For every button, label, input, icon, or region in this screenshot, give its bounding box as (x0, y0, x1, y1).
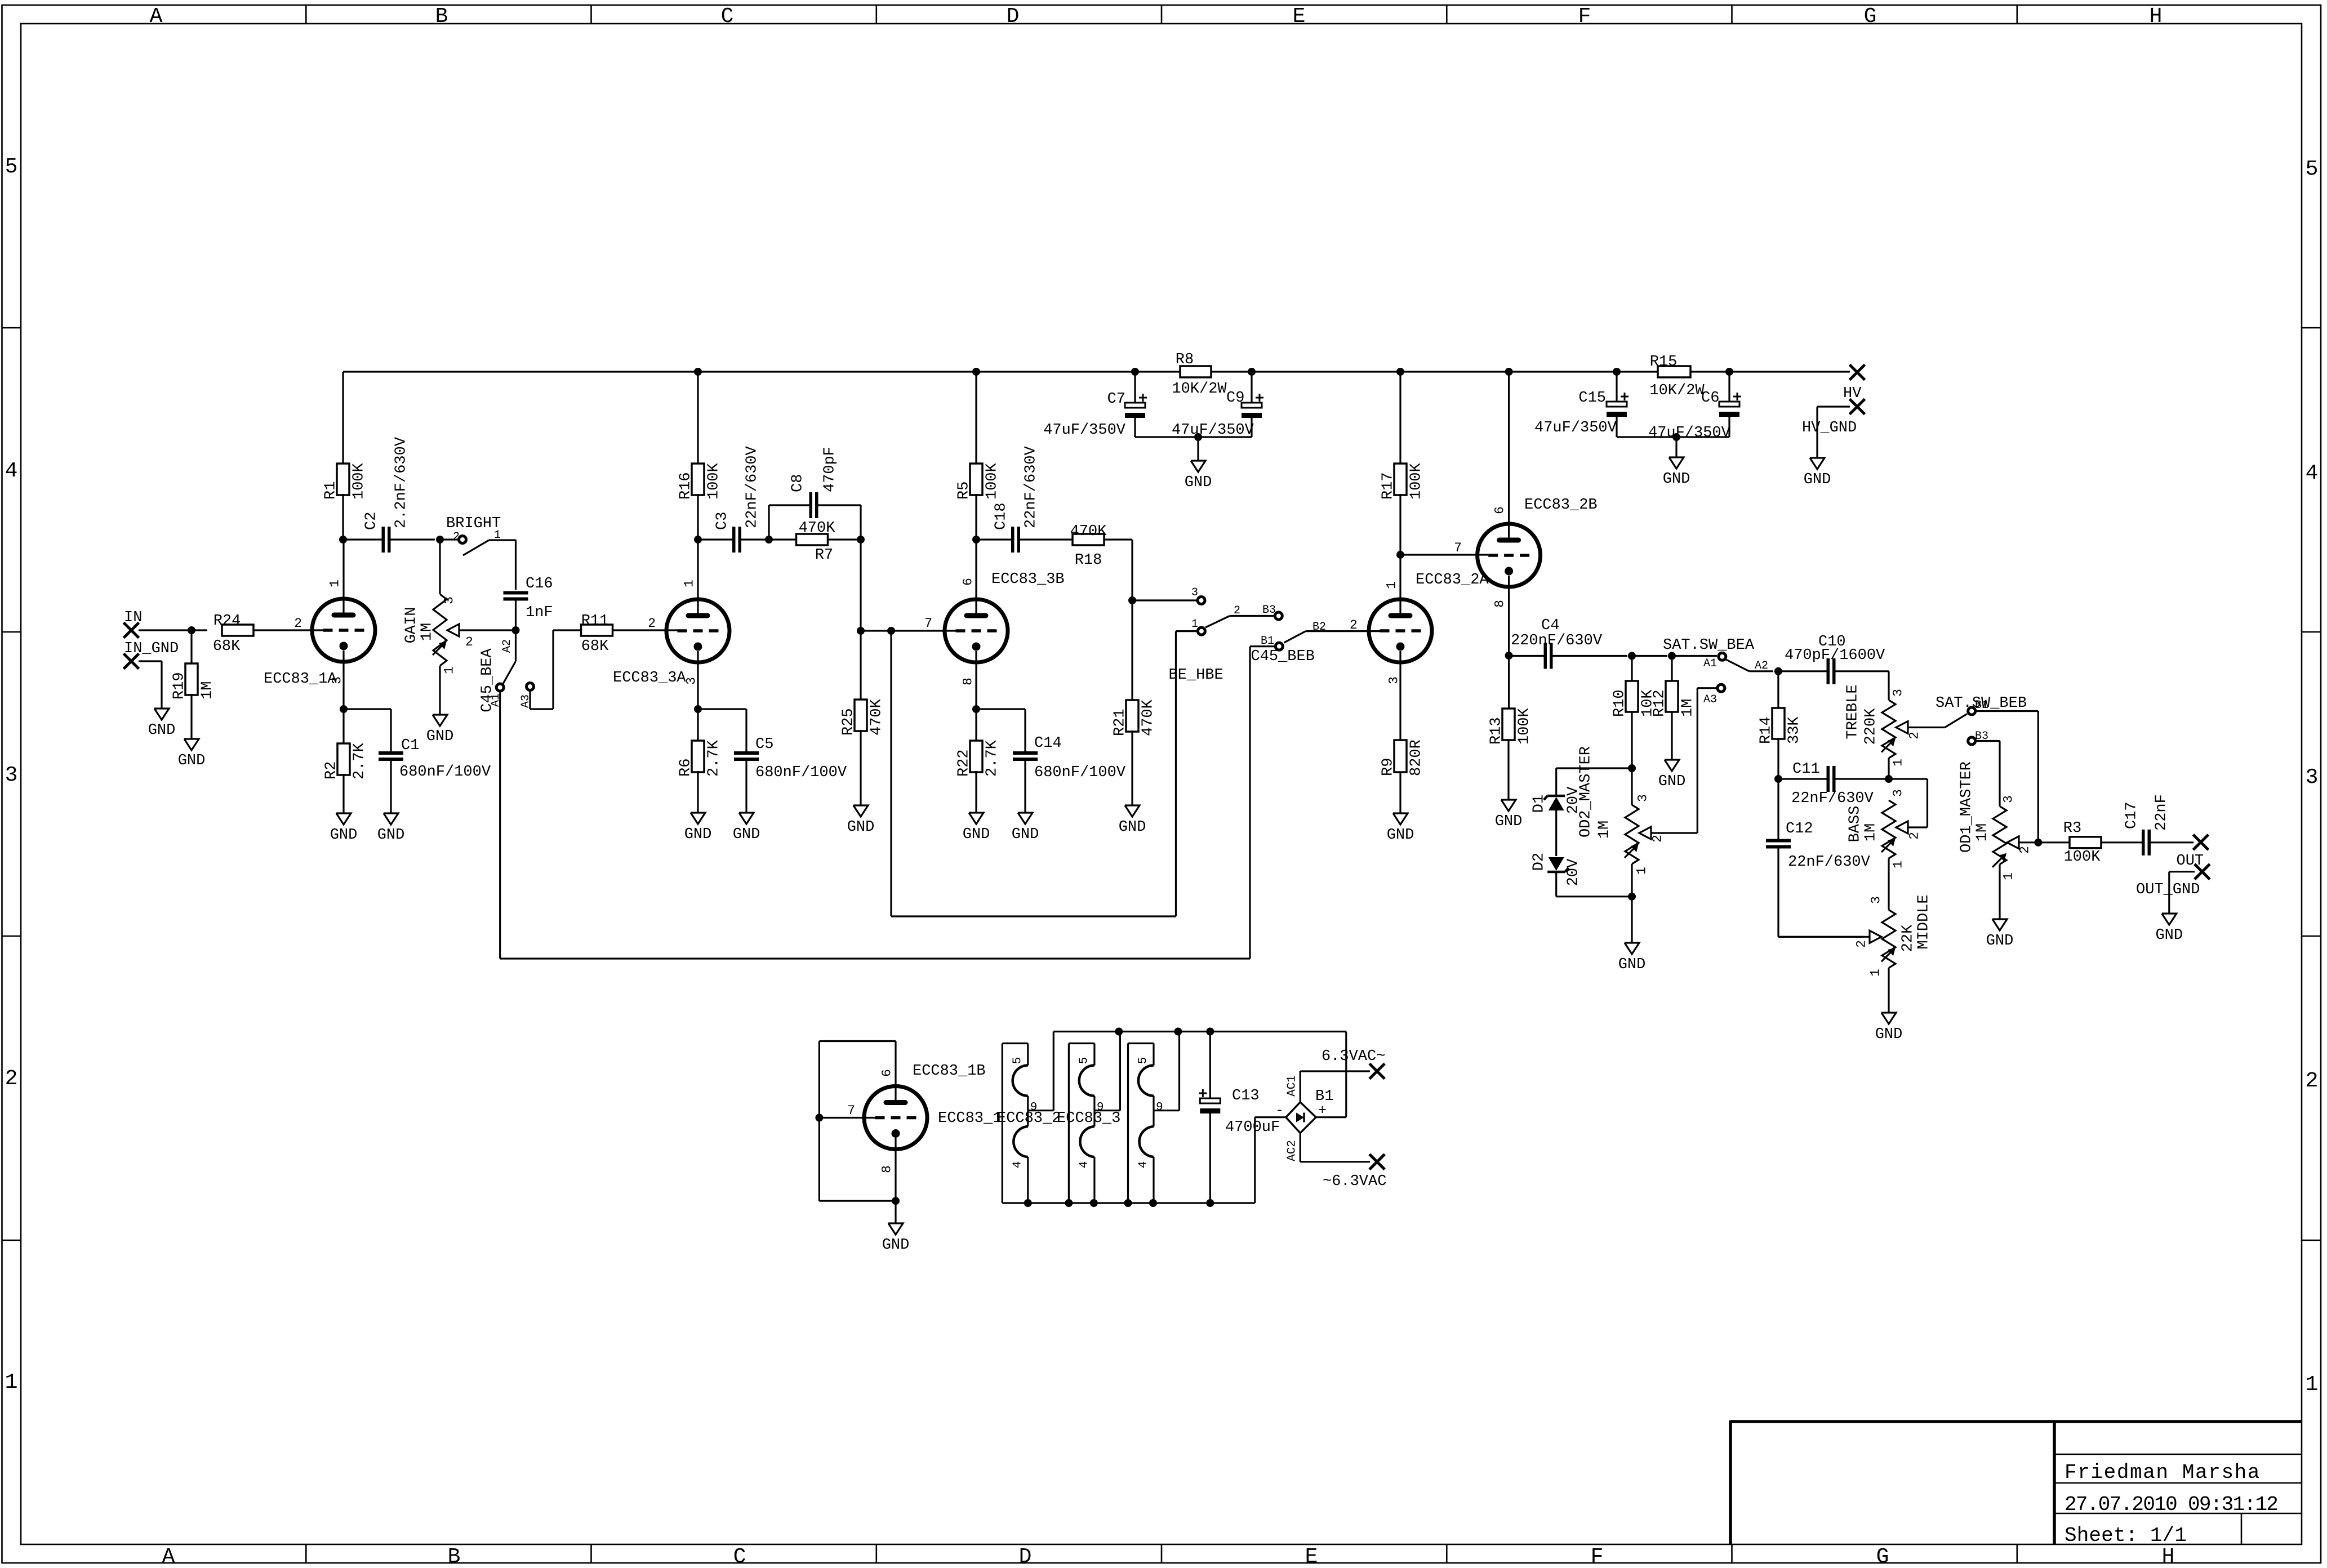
svg-text:2: 2 (1907, 832, 1921, 840)
wire HV out (1690, 371, 1850, 372)
capacitor C2 (343, 436, 435, 553)
resistor R25 (840, 631, 886, 805)
svg-text:2: 2 (1650, 835, 1665, 843)
svg-text:AC1: AC1 (1286, 1075, 1299, 1097)
resistor R10 (1612, 656, 1657, 769)
svg-text:GND: GND (148, 722, 176, 739)
svg-text:100K: 100K (706, 462, 723, 500)
HV bus wire right (1211, 371, 1658, 372)
resistor R11 (581, 613, 678, 655)
svg-text:3: 3 (1868, 896, 1883, 904)
resistor R16 (678, 372, 723, 540)
svg-text:1M: 1M (1863, 823, 1880, 841)
node HV/R5 (972, 368, 980, 376)
svg-text:GND: GND (377, 827, 405, 844)
svg-text:1: 1 (2001, 872, 2015, 880)
svg-text:R13: R13 (1488, 717, 1505, 745)
svg-text:BRIGHT: BRIGHT (446, 515, 501, 532)
svg-text:H: H (2162, 1545, 2175, 1568)
svg-text:MIDDLE: MIDDLE (1916, 894, 1933, 949)
ground (1663, 457, 1690, 488)
svg-text:B1: B1 (1975, 699, 1988, 712)
node cathode 3A (694, 705, 702, 713)
svg-text:1: 1 (1890, 759, 1905, 767)
svg-text:680nF/100V: 680nF/100V (1034, 764, 1126, 781)
node rail/heater3 (1174, 1028, 1182, 1036)
wire (139, 661, 162, 709)
potentiometer TREBLE 220K (1845, 671, 1945, 767)
svg-text:4: 4 (2306, 461, 2319, 485)
node HV/C9 (1248, 368, 1256, 376)
svg-text:7: 7 (847, 1103, 855, 1118)
capacitor C14 (976, 709, 1126, 813)
svg-text:3: 3 (2306, 765, 2319, 790)
svg-text:22nF/630V: 22nF/630V (1023, 446, 1040, 528)
capacitor C11 (1778, 761, 1889, 807)
svg-text:D2: D2 (1531, 853, 1548, 871)
resistor R22 (956, 709, 1001, 813)
svg-text:GND: GND (1185, 474, 1212, 491)
svg-text:2: 2 (294, 616, 302, 631)
svg-text:220K: 220K (1863, 708, 1880, 745)
svg-text:R14: R14 (1758, 716, 1775, 744)
svg-text:C11: C11 (1792, 761, 1820, 778)
svg-text:C2: C2 (363, 512, 380, 530)
zener D1 20V (1531, 768, 1632, 856)
svg-text:R6: R6 (678, 759, 695, 777)
svg-text:2: 2 (2306, 1069, 2319, 1093)
potentiometer OD2_MASTER 1M (1578, 746, 1698, 897)
svg-text:C15: C15 (1578, 390, 1606, 407)
svg-text:22K: 22K (1900, 924, 1917, 952)
svg-text:C18: C18 (993, 502, 1010, 530)
resistor R18 (1070, 523, 1132, 569)
svg-text:100K: 100K (351, 462, 368, 500)
ground (733, 813, 760, 843)
capacitor C4 (1509, 617, 1627, 669)
svg-text:R18: R18 (1075, 552, 1102, 569)
svg-text:4: 4 (1011, 1161, 1024, 1169)
svg-text:C4: C4 (1541, 617, 1559, 634)
svg-text:C13: C13 (1232, 1088, 1260, 1104)
svg-text:6: 6 (960, 578, 975, 586)
svg-text:GND: GND (963, 826, 990, 843)
svg-text:470K: 470K (1070, 523, 1107, 540)
svg-text:GAIN: GAIN (403, 607, 420, 644)
svg-text:R8: R8 (1176, 351, 1194, 368)
node HV/R16 (694, 368, 702, 376)
svg-text:R19: R19 (171, 672, 188, 700)
svg-text:C12: C12 (1786, 821, 1813, 838)
svg-text:A3: A3 (1703, 693, 1717, 706)
wire R18 to BE_HBE (1132, 540, 1196, 600)
node R7/C8 output (857, 536, 865, 544)
svg-text:10K/2W: 10K/2W (1649, 382, 1705, 399)
svg-text:C7: C7 (1107, 391, 1125, 408)
svg-text:ECC83_1B: ECC83_1B (913, 1063, 986, 1080)
svg-text:GND: GND (684, 826, 712, 843)
node C2/BRIGHT/GAIN (436, 536, 444, 544)
ground (1804, 458, 1831, 488)
capacitor C13 4700uF (1199, 1032, 1280, 1204)
svg-text:1: 1 (1890, 861, 1905, 868)
port OUT (2177, 835, 2209, 870)
svg-text:F: F (1578, 5, 1591, 29)
port 6.3VAC~ (1322, 1048, 1385, 1079)
svg-text:3: 3 (1890, 689, 1905, 697)
ground (1658, 760, 1686, 790)
svg-text:33K: 33K (1786, 716, 1803, 744)
wire (1197, 437, 1199, 461)
svg-text:27.07.2010 09:31:12: 27.07.2010 09:31:12 (2065, 1493, 2277, 1516)
svg-text:820R: 820R (1408, 740, 1425, 776)
svg-text:GND: GND (1119, 819, 1146, 836)
svg-text:D1: D1 (1531, 795, 1548, 813)
ground (963, 813, 990, 843)
svg-text:B: B (435, 5, 448, 29)
svg-text:1: 1 (1384, 581, 1399, 589)
ground (1495, 800, 1523, 830)
triode U5 ECC83_2B (1478, 372, 1598, 656)
wire OD2 wiper to A3 (1697, 688, 1716, 833)
svg-text:470pF: 470pF (822, 447, 839, 492)
resistor R17 (1380, 372, 1425, 555)
svg-text:5: 5 (1011, 1057, 1024, 1064)
svg-text:GND: GND (733, 826, 760, 843)
svg-text:C14: C14 (1034, 735, 1062, 752)
resistor R2 (323, 709, 368, 813)
svg-text:1M: 1M (1596, 821, 1613, 839)
svg-text:GND: GND (1618, 956, 1646, 973)
svg-text:ECC83_2A: ECC83_2A (1416, 572, 1489, 589)
svg-text:OD2_MASTER: OD2_MASTER (1578, 746, 1595, 838)
svg-text:R15: R15 (1650, 354, 1678, 371)
svg-text:1M: 1M (199, 681, 216, 700)
svg-text:47uF/350V: 47uF/350V (1534, 420, 1617, 436)
node R18/R21 (1128, 596, 1136, 604)
svg-text:4700uF: 4700uF (1225, 1119, 1280, 1136)
svg-text:GND: GND (1804, 471, 1831, 488)
capacitor C1 (344, 709, 491, 813)
capacitor C15 47uF (1534, 372, 1629, 437)
zener D2 20V (1531, 853, 1632, 897)
svg-text:HV_GND: HV_GND (1802, 420, 1857, 436)
svg-text:A1: A1 (1703, 657, 1717, 670)
capacitor C18 (976, 446, 1073, 553)
node C4/R12 (1668, 652, 1676, 660)
svg-text:D: D (1019, 1545, 1032, 1568)
node HV/C6 (1725, 368, 1733, 376)
resistor R19 (171, 630, 216, 739)
svg-text:~6.3VAC: ~6.3VAC (1323, 1173, 1386, 1190)
ground (1986, 919, 2014, 950)
svg-text:1M: 1M (1974, 823, 1991, 841)
svg-text:1: 1 (442, 666, 456, 674)
svg-text:OD1_MASTER: OD1_MASTER (1959, 761, 1975, 853)
svg-text:2: 2 (1907, 732, 1921, 740)
svg-text:B3: B3 (1262, 604, 1276, 617)
node R17 to 2B grid (1396, 551, 1404, 559)
svg-text:AC2: AC2 (1286, 1140, 1299, 1161)
svg-text:TREBLE: TREBLE (1845, 684, 1862, 739)
svg-text:G: G (1864, 5, 1877, 29)
node input junction (188, 626, 195, 634)
svg-text:GND: GND (178, 752, 206, 769)
svg-text:A: A (150, 5, 163, 29)
node rail/heater2 (1115, 1028, 1123, 1036)
svg-text:GND: GND (1986, 933, 2014, 950)
svg-text:C9: C9 (1226, 390, 1244, 407)
svg-text:22nF/630V: 22nF/630V (744, 446, 761, 528)
svg-text:20V: 20V (1565, 858, 1582, 886)
svg-text:100K: 100K (1516, 707, 1533, 745)
node C3/C8/R7 (765, 536, 773, 544)
node grid 3B / feedback (887, 627, 895, 635)
node HV/R17 (1396, 368, 1404, 376)
svg-text:ECC83_2: ECC83_2 (997, 1110, 1061, 1127)
capacitor C3 (698, 446, 769, 553)
heater ECC83_2 (pins 4,5,9) (997, 1032, 1120, 1204)
triode U3 ECC83_3B (924, 540, 1064, 709)
svg-text:3: 3 (442, 596, 456, 604)
svg-text:-: - (1275, 1102, 1284, 1119)
svg-text:C: C (721, 5, 734, 29)
svg-text:R3: R3 (2063, 820, 2081, 837)
svg-text:100K: 100K (1408, 462, 1425, 500)
potentiometer BASS 1M (1847, 779, 1928, 910)
ground (330, 813, 358, 844)
potentiometer GAIN 1M (403, 540, 516, 715)
ground (426, 715, 454, 745)
resistor R6 (678, 709, 723, 813)
svg-text:5: 5 (5, 155, 18, 179)
potentiometer OD1_MASTER 1M (1959, 741, 2039, 920)
svg-text:GND: GND (1658, 773, 1686, 790)
svg-text:2.7K: 2.7K (352, 742, 368, 779)
svg-text:D: D (1007, 5, 1020, 29)
svg-text:C8: C8 (790, 474, 807, 492)
svg-text:100K: 100K (2064, 849, 2101, 866)
ground (1875, 1013, 1903, 1043)
svg-text:GND: GND (847, 819, 875, 836)
svg-text:GND: GND (426, 728, 454, 745)
svg-text:1: 1 (1191, 618, 1198, 631)
port ~6.3VAC (1323, 1154, 1386, 1190)
heater top rail (1053, 1031, 1346, 1032)
svg-text:GND: GND (330, 827, 358, 844)
resistor R13 (1488, 656, 1533, 800)
svg-text:1nF: 1nF (526, 604, 553, 621)
HV bus wire (343, 371, 1180, 372)
svg-text:GND: GND (2155, 927, 2183, 944)
svg-text:ECC83_3A: ECC83_3A (613, 670, 686, 687)
node cathode 1A (340, 705, 348, 713)
svg-text:H: H (2150, 5, 2163, 29)
svg-text:68K: 68K (213, 638, 241, 655)
svg-text:6: 6 (879, 1069, 894, 1077)
wire C15/C6 common (1617, 436, 1729, 438)
svg-text:B3: B3 (1975, 730, 1988, 743)
node R14/C11/C12 (1774, 775, 1782, 783)
svg-text:R25: R25 (840, 708, 857, 736)
svg-text:B1: B1 (1261, 635, 1274, 648)
node R1/C2/plate (339, 536, 347, 544)
node HV/2B plate (1505, 368, 1513, 376)
wire (1675, 437, 1677, 457)
ground (684, 813, 712, 843)
node rail/C13 (1206, 1028, 1214, 1036)
svg-text:2: 2 (648, 616, 656, 631)
svg-text:SAT.SW_BEA: SAT.SW_BEA (1663, 637, 1755, 654)
svg-text:OUT: OUT (2177, 853, 2204, 870)
resistor R5 (956, 372, 1001, 540)
svg-text:4: 4 (1137, 1161, 1150, 1169)
svg-text:2.7K: 2.7K (984, 740, 1001, 777)
svg-text:R22: R22 (956, 749, 973, 777)
svg-text:B: B (448, 1545, 461, 1568)
wire to 3B grid (861, 540, 956, 631)
svg-text:9: 9 (1156, 1101, 1163, 1114)
node filter gnd (1194, 433, 1202, 441)
svg-text:C6: C6 (1701, 390, 1719, 407)
svg-text:5: 5 (2306, 157, 2319, 181)
resistor R8 (1172, 351, 1227, 398)
port HV_GND (1802, 399, 1865, 458)
node GAIN wiper/C16/A2 (512, 626, 520, 634)
wire (895, 1201, 896, 1223)
capacitor C8 (769, 447, 861, 540)
wire B1 to OD1 wiper node (2037, 711, 2039, 843)
triode U1 ECC83_1A (264, 540, 375, 709)
wire (1632, 655, 1667, 657)
resistor R9 (1380, 740, 1425, 813)
node A2/C10/R14 (1774, 667, 1782, 675)
svg-text:3: 3 (684, 677, 698, 685)
svg-text:470K: 470K (869, 698, 886, 736)
svg-text:2.7K: 2.7K (706, 740, 723, 777)
node R5/C18/plate (972, 536, 980, 544)
svg-text:ECC83_1A: ECC83_1A (264, 671, 337, 688)
resistor R15 (1649, 354, 1705, 399)
bridge rectifier B1 (1255, 1032, 1370, 1204)
ground (1012, 813, 1039, 843)
ground (1618, 943, 1646, 973)
ground (148, 709, 176, 739)
svg-text:R1: R1 (323, 482, 340, 500)
ground (178, 739, 206, 769)
svg-text:C3: C3 (714, 512, 731, 530)
node pot bottom (1628, 893, 1636, 901)
node HV/C7 (1131, 368, 1139, 376)
svg-text:1M: 1M (1680, 699, 1697, 717)
svg-text:C17: C17 (2124, 801, 2141, 829)
wire (139, 629, 192, 631)
wire pot bottom to ground (1631, 897, 1632, 943)
svg-text:10K/2W: 10K/2W (1172, 381, 1227, 398)
wire feedback bus P (891, 631, 1176, 916)
svg-text:BASS: BASS (1847, 806, 1864, 843)
svg-text:A: A (162, 1545, 175, 1568)
wire BRIGHT to C16 (515, 540, 517, 590)
svg-text:C45_BEA: C45_BEA (479, 648, 496, 712)
svg-text:GND: GND (1663, 471, 1690, 488)
svg-text:A2: A2 (1755, 660, 1768, 672)
wire A3 to R11 node (530, 630, 582, 709)
svg-text:A2: A2 (501, 639, 514, 653)
svg-text:2: 2 (1854, 940, 1868, 948)
switch SAT.SW_BEB (1936, 695, 2038, 745)
svg-text:+: + (1318, 1102, 1327, 1119)
svg-text:G: G (1876, 1545, 1889, 1568)
svg-text:BE_HBE: BE_HBE (1169, 667, 1223, 684)
node 1B grid/plate (815, 1114, 823, 1122)
svg-text:GND: GND (1875, 1026, 1903, 1043)
svg-text:HV: HV (1843, 385, 1862, 402)
capacitor C10 (1778, 634, 1889, 684)
svg-text:680nF/100V: 680nF/100V (399, 764, 491, 781)
svg-text:C1: C1 (401, 737, 419, 754)
wire C7/C9 common (1135, 436, 1252, 438)
svg-text:E: E (1293, 5, 1306, 29)
heater bottom rail (1002, 1199, 1255, 1207)
svg-text:C16: C16 (526, 576, 553, 593)
svg-text:22nF/630V: 22nF/630V (1788, 854, 1871, 871)
capacitor C7 47uF (1043, 372, 1147, 439)
node HV/C15 (1613, 368, 1621, 376)
svg-text:2.2nF/630V: 2.2nF/630V (393, 436, 410, 528)
triode U4 ECC83_2A (1369, 555, 1489, 740)
svg-text:2: 2 (2017, 846, 2032, 854)
resistor R21 (1112, 600, 1157, 805)
node R10/D1 (1628, 764, 1636, 772)
svg-text:220nF/630V: 220nF/630V (1511, 632, 1603, 649)
svg-text:R12: R12 (1652, 689, 1669, 717)
svg-text:R5: R5 (956, 482, 973, 500)
switch SAT.SW_BEA (1663, 637, 1773, 706)
svg-text:470pF/1600V: 470pF/1600V (1785, 647, 1885, 664)
svg-text:GND: GND (882, 1237, 910, 1254)
svg-text:1M: 1M (419, 623, 436, 641)
svg-text:3: 3 (1386, 676, 1401, 684)
svg-text:GND: GND (1387, 827, 1414, 844)
svg-text:47uF/350V: 47uF/350V (1043, 422, 1126, 439)
svg-text:R11: R11 (581, 613, 609, 630)
svg-text:7: 7 (924, 616, 932, 631)
svg-text:Friedman Marsha: Friedman Marsha (2065, 1461, 2261, 1484)
svg-text:R17: R17 (1380, 472, 1397, 500)
svg-text:3: 3 (2001, 795, 2015, 803)
svg-text:5: 5 (1078, 1057, 1091, 1064)
switch BRIGHT (440, 515, 516, 555)
svg-text:7: 7 (1454, 541, 1462, 555)
capacitor C17 (2124, 794, 2193, 856)
svg-text:2: 2 (465, 635, 473, 649)
svg-text:22nF/630V: 22nF/630V (1791, 790, 1874, 807)
svg-text:8: 8 (1492, 600, 1507, 608)
node cathode 3B (972, 705, 980, 713)
ground (847, 805, 875, 836)
svg-text:5: 5 (1137, 1057, 1150, 1064)
svg-text:8: 8 (960, 678, 975, 685)
switch BE_HBE (1169, 586, 1274, 684)
svg-text:ECC83_2B: ECC83_2B (1524, 497, 1598, 514)
svg-text:R9: R9 (1380, 758, 1397, 776)
svg-text:F: F (1591, 1545, 1604, 1568)
port IN_GND (124, 640, 179, 669)
svg-text:ECC83_3B: ECC83_3B (991, 571, 1065, 588)
resistor R14 (1758, 671, 1803, 779)
capacitor C16 (504, 576, 553, 630)
